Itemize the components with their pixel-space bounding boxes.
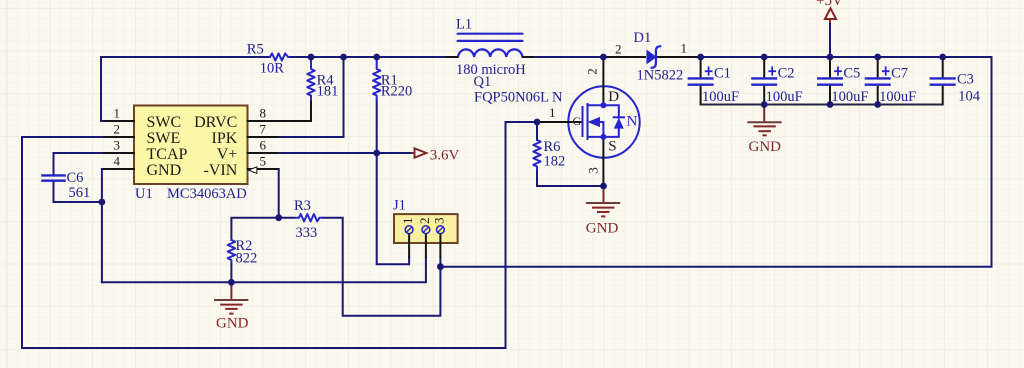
- J1 pin 1 circle: [405, 226, 413, 234]
- capacitor C2: [751, 57, 802, 105]
- wire R6 bottom over to source junction: [537, 170, 604, 186]
- 3.6V power port arrow: [415, 148, 427, 157]
- svg-text:R6: R6: [544, 139, 561, 155]
- svg-text:R220: R220: [381, 84, 412, 100]
- svg-text:1N5822: 1N5822: [637, 68, 684, 84]
- svg-text:8: 8: [260, 106, 267, 121]
- resistor R1 zigzag: [373, 57, 380, 100]
- svg-text:561: 561: [69, 185, 91, 201]
- Q1 gate plate: [582, 107, 584, 136]
- Q1 body stub with connection down to source: [600, 122, 603, 137]
- resistor R2 zigzag: [228, 240, 235, 262]
- svg-text:182: 182: [544, 154, 566, 170]
- wire capacitor bottom rail: [701, 104, 943, 106]
- svg-text:S: S: [608, 139, 616, 155]
- inductor L1 right pin: [522, 56, 534, 58]
- svg-text:TCAP: TCAP: [147, 146, 188, 163]
- svg-text:SWE: SWE: [147, 130, 181, 147]
- svg-text:GND: GND: [216, 316, 249, 332]
- svg-text:R5: R5: [247, 41, 264, 57]
- svg-text:2: 2: [417, 218, 432, 225]
- svg-text:2: 2: [114, 122, 121, 137]
- junction rail at C1: [697, 54, 704, 61]
- svg-text:GND: GND: [749, 139, 782, 155]
- junction gate node: [534, 119, 541, 126]
- junction R2 foot node: [228, 279, 235, 286]
- svg-text:10R: 10R: [260, 61, 285, 77]
- svg-text:1: 1: [681, 40, 688, 55]
- Q1 internal drain dot: [600, 102, 606, 108]
- U1 pin 2 stub: [104, 136, 134, 138]
- svg-text:5: 5: [260, 154, 267, 169]
- wire pin 5 -VIN down to feedback node: [256, 169, 279, 218]
- junction bottom rail C7: [874, 101, 881, 108]
- svg-text:C7: C7: [891, 65, 908, 81]
- U1 pin 5 input triangle marker: [248, 167, 257, 174]
- junction rail at C3: [939, 54, 946, 61]
- wire C6 bottom to pin4 junction: [54, 181, 102, 202]
- svg-text:100uF: 100uF: [766, 89, 803, 105]
- connector J1 body: [394, 214, 458, 243]
- U1 pin 5 stub: [248, 168, 278, 170]
- svg-text:104: 104: [958, 89, 981, 105]
- svg-text:1: 1: [549, 105, 556, 120]
- svg-text:C1: C1: [714, 65, 731, 81]
- svg-text:3.6V: 3.6V: [430, 148, 460, 164]
- junction bottom rail C2: [761, 101, 768, 108]
- svg-text:1: 1: [400, 218, 415, 225]
- svg-text:3: 3: [431, 218, 446, 225]
- wire top rail from pin1 corner to R5: [101, 57, 270, 121]
- svg-text:C6: C6: [67, 170, 84, 186]
- J1 pin 1 stub: [408, 234, 410, 258]
- svg-text:100uF: 100uF: [702, 89, 739, 105]
- svg-text:6: 6: [260, 138, 267, 153]
- wire R3 right end down and over to Vout loop under J1: [323, 218, 441, 316]
- svg-text:-VIN: -VIN: [204, 162, 238, 179]
- svg-text:C3: C3: [957, 72, 974, 88]
- resistor R5 zigzag: [270, 53, 290, 60]
- wire pin 2 SWE left edge loop along bottom to Q1 gate: [22, 122, 537, 348]
- svg-text:D: D: [608, 89, 619, 105]
- svg-text:100uF: 100uF: [831, 89, 868, 105]
- diode D1 triangle: [647, 51, 656, 64]
- junction 3.6V node: [373, 150, 380, 157]
- junction rail at IPK: [340, 54, 347, 61]
- wire L1 right lead to drain junction: [534, 56, 603, 58]
- diode D1 anode pin: [603, 56, 646, 58]
- ground symbol under R2: [214, 284, 248, 314]
- transistor Q1 gate pin (1): [537, 121, 583, 123]
- U1 pin 8 stub: [248, 120, 278, 122]
- Q1 internal source dot: [600, 134, 606, 140]
- svg-text:C5: C5: [843, 65, 860, 81]
- inductor L1 left pin: [445, 56, 458, 58]
- +5V power port arrow: [825, 8, 836, 19]
- svg-text:G: G: [573, 114, 582, 128]
- svg-text:N: N: [627, 113, 638, 129]
- capacitor C3: [930, 57, 981, 105]
- svg-text:4: 4: [114, 154, 121, 169]
- svg-text:180 microH: 180 microH: [456, 62, 526, 78]
- wire R2 bottom lead to ground rail: [230, 262, 232, 282]
- resistor R3 left lead: [279, 217, 295, 219]
- U1 pin 3 stub: [104, 152, 134, 154]
- transistor Q1 circle: [568, 86, 639, 157]
- U1 pin 6 stub: [248, 152, 278, 154]
- junction rail at C7: [874, 54, 881, 61]
- wire ground rail from pin4 line to R2 foot to J1 pin2: [102, 258, 426, 282]
- inductor L1 arcs: [458, 49, 522, 57]
- svg-text:IPK: IPK: [212, 130, 238, 147]
- svg-text:FQP50N06L N: FQP50N06L N: [474, 90, 563, 106]
- inductor L1 core bar bottom: [458, 40, 523, 42]
- junction source node: [600, 183, 607, 190]
- svg-text:822: 822: [236, 251, 258, 267]
- svg-text:C2: C2: [778, 65, 795, 81]
- svg-text:D1: D1: [634, 30, 652, 46]
- svg-text:GND: GND: [147, 162, 182, 179]
- resistor R6 zigzag: [533, 140, 540, 170]
- wire R4 bottom lead to pin 8: [278, 100, 312, 121]
- Q1 drain stub inside: [588, 103, 604, 105]
- svg-text:V+: V+: [217, 146, 238, 163]
- wire pin 4 GND down to ground rail: [102, 169, 104, 282]
- svg-text:J1: J1: [393, 198, 406, 214]
- svg-text:3: 3: [585, 167, 600, 174]
- svg-text:GND: GND: [586, 221, 619, 237]
- svg-text:R3: R3: [294, 198, 311, 214]
- junction rail at R4: [308, 54, 315, 61]
- svg-text:2: 2: [615, 41, 622, 56]
- svg-text:U1: U1: [135, 186, 153, 202]
- wire junction A to junction B to junction C to L1 left lead: [311, 56, 445, 58]
- transistor Q1 source pin (3): [602, 138, 604, 186]
- junction rail at Q1 drain: [600, 54, 607, 61]
- capacitor C7: [865, 57, 916, 105]
- op-amp U1 body MC34063AD: [134, 106, 248, 185]
- resistor R3 zigzag: [295, 214, 323, 221]
- svg-text:181: 181: [317, 84, 339, 100]
- U1 pin 7 stub: [248, 136, 278, 138]
- svg-text:MC34063AD: MC34063AD: [167, 186, 247, 202]
- inductor L1 core bar top: [458, 33, 523, 35]
- wire pin 3 TCAP down to C6: [54, 153, 105, 175]
- svg-text:1: 1: [114, 106, 121, 121]
- wire R6 top junction to gate node: [536, 122, 538, 140]
- wire +5V port stem down to cap rail: [829, 22, 831, 57]
- wire R1 lower lead down through 3.6V junction to J1 pin1 loop: [377, 100, 409, 264]
- Q1 source stub inside: [588, 136, 604, 138]
- transistor Q1 drain pin (2): [602, 57, 604, 103]
- J1 pin 2 stub: [425, 234, 427, 258]
- svg-text:DRVC: DRVC: [194, 114, 237, 131]
- junction rail at C5: [827, 54, 834, 61]
- junction Vout-J1 pin3 node: [437, 263, 444, 270]
- wire pin 6 V+ to 3.6V power port: [278, 152, 412, 154]
- capacitor C1: [688, 57, 739, 105]
- wire feedback node left to R2 top: [231, 218, 278, 240]
- Q1 body diode cathode bar: [614, 116, 624, 118]
- wire J1 pin3 stub to Vout node: [439, 258, 441, 267]
- wire IPK vertical from rail junction B down to pin 7: [278, 57, 344, 137]
- svg-text:L1: L1: [456, 17, 472, 33]
- U1 pin 1 stub: [104, 120, 134, 122]
- Q1 body diode branch: [603, 105, 618, 118]
- U1 pin 4 stub: [104, 168, 134, 170]
- diode D1 schottky cathode bar: [651, 46, 660, 68]
- junction rail at C2: [761, 54, 768, 61]
- svg-text:3: 3: [114, 138, 121, 153]
- Q1 channel bar: [587, 104, 589, 139]
- svg-text:7: 7: [260, 122, 267, 137]
- wire R5 right to junction A: [290, 56, 311, 58]
- capacitor C5: [817, 57, 868, 105]
- capacitor C6: [41, 170, 90, 201]
- J1 pin 3 stub: [439, 234, 441, 258]
- J1 pin 3 circle: [437, 226, 445, 234]
- Q1 body arrow: [588, 117, 601, 127]
- svg-text:+5V: +5V: [816, 0, 843, 9]
- junction rail at R1: [373, 54, 380, 61]
- junction feedback node: [275, 214, 282, 221]
- ground symbol under C2: [747, 105, 781, 136]
- svg-text:100uF: 100uF: [879, 89, 916, 105]
- ground symbol under Q1 source: [586, 187, 620, 216]
- diode D1 cathode pin: [657, 56, 701, 58]
- svg-text:333: 333: [296, 225, 318, 241]
- wire D1 cathode junction to cap rail and right edge loop down to node Vout row: [440, 57, 991, 267]
- resistor R4 zigzag: [307, 57, 314, 100]
- junction bottom rail C5: [827, 101, 834, 108]
- svg-text:2: 2: [584, 68, 599, 75]
- svg-text:SWC: SWC: [147, 114, 182, 131]
- J1 pin 2 circle: [422, 226, 430, 234]
- Q1 body diode triangle: [614, 118, 624, 129]
- junction pin4-C6 node: [99, 199, 106, 206]
